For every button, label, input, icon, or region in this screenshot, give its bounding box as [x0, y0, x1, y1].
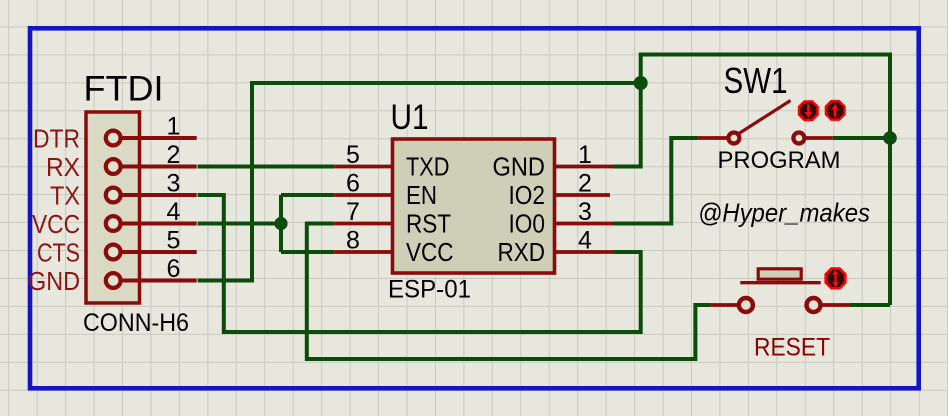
svg-text:@Hyper_makes: @Hyper_makes — [698, 198, 870, 228]
svg-text:RESET: RESET — [754, 334, 830, 362]
svg-text:IO0: IO0 — [509, 209, 546, 239]
svg-text:6: 6 — [167, 255, 181, 283]
svg-text:1: 1 — [578, 141, 592, 169]
svg-text:FTDI: FTDI — [84, 70, 164, 109]
svg-text:EN: EN — [406, 180, 437, 210]
svg-text:CONN-H6: CONN-H6 — [83, 309, 189, 337]
svg-text:RST: RST — [406, 209, 451, 239]
svg-text:VCC: VCC — [406, 237, 454, 267]
svg-text:SW1: SW1 — [724, 60, 788, 101]
svg-text:RX: RX — [46, 152, 80, 182]
svg-text:4: 4 — [167, 198, 181, 226]
svg-text:U1: U1 — [391, 98, 429, 137]
svg-text:7: 7 — [346, 198, 360, 226]
svg-text:5: 5 — [346, 141, 360, 169]
svg-text:TXD: TXD — [406, 152, 450, 182]
svg-text:IO2: IO2 — [509, 180, 546, 210]
svg-text:PROGRAM: PROGRAM — [718, 147, 841, 174]
svg-text:1: 1 — [167, 113, 181, 141]
svg-text:5: 5 — [167, 227, 181, 255]
svg-text:6: 6 — [346, 170, 360, 198]
svg-text:4: 4 — [578, 227, 592, 255]
svg-text:VCC: VCC — [32, 209, 80, 239]
svg-text:TX: TX — [50, 181, 80, 211]
svg-text:RXD: RXD — [498, 237, 546, 267]
svg-text:GND: GND — [493, 152, 546, 182]
svg-text:2: 2 — [167, 141, 181, 169]
svg-text:GND: GND — [28, 266, 80, 296]
svg-text:8: 8 — [346, 227, 360, 255]
svg-text:DTR: DTR — [33, 124, 80, 154]
svg-text:CTS: CTS — [37, 238, 80, 268]
svg-text:3: 3 — [167, 170, 181, 198]
svg-text:ESP-01: ESP-01 — [388, 276, 471, 304]
svg-text:2: 2 — [578, 170, 592, 198]
svg-text:3: 3 — [578, 198, 592, 226]
